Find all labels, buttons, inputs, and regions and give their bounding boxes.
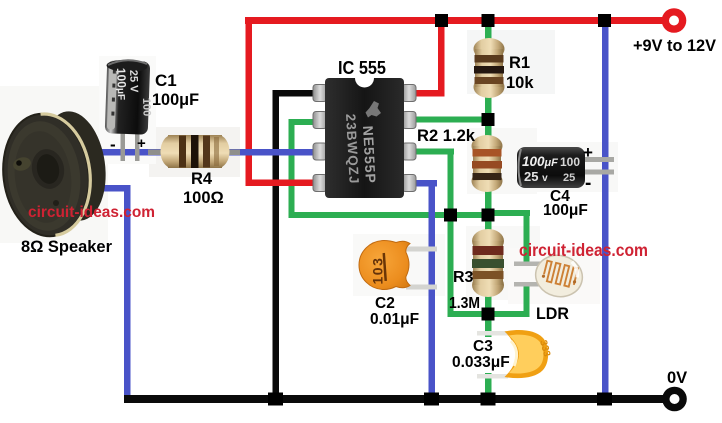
C1 photo backdrop (99, 56, 156, 164)
svg-text:R2 1.2k: R2 1.2k (417, 127, 476, 145)
wire: blue speaker to IC pin3 left (88, 149, 318, 156)
svg-text:IC 555: IC 555 (338, 58, 386, 78)
wire: blue right vertical supply to ground (602, 21, 609, 399)
wire: blue vertical pin4 right to ground rail (429, 180, 436, 399)
op-amp U1 IC 555 (313, 78, 416, 198)
R1 photo backdrop (467, 30, 555, 94)
resistor R4 (148, 135, 240, 168)
C4 photo backdrop (512, 142, 618, 192)
wire: black IC pin1 left stub (273, 90, 316, 97)
wire: +V red top rail (245, 17, 663, 24)
svg-text:C2: C2 (375, 295, 395, 312)
node on rail blue vertical (598, 14, 611, 27)
svg-text:-: - (585, 173, 591, 194)
svg-text:100μF: 100μF (114, 68, 129, 101)
pin 1 left (313, 85, 327, 102)
wire: black ground bottom rail (124, 395, 663, 403)
resistor R3 (472, 229, 504, 297)
wire: red elbow to IC pin4 left (246, 180, 319, 187)
IC body (325, 78, 404, 198)
node on rail red-to-pin1 (435, 14, 448, 27)
svg-text:NE555P: NE555P (360, 125, 379, 184)
svg-text:25 V: 25 V (127, 70, 140, 94)
wire: green horizontal to R3 bottom node (448, 311, 530, 317)
svg-text:100: 100 (140, 98, 153, 117)
svg-text:+9V to 12V: +9V to 12V (633, 37, 716, 55)
node R3 bottom junction (482, 308, 495, 321)
svg-text:circuit-ideas.com: circuit-ideas.com (28, 204, 155, 221)
svg-text:+: + (137, 135, 146, 152)
svg-text:100Ω: 100Ω (183, 189, 224, 207)
svg-text:0V: 0V (667, 369, 687, 387)
wire: blue left vertical to ground rail (124, 185, 131, 399)
R2 photo backdrop (467, 128, 537, 194)
R4 photo backdrop (149, 127, 240, 177)
node ground rail black vertical (268, 393, 283, 406)
resistor R2 (472, 135, 503, 192)
svg-text:C1: C1 (155, 71, 177, 90)
pin 5 right (402, 175, 416, 192)
pin 6 right (402, 143, 416, 160)
node R1-R2 junction (482, 113, 495, 126)
wire: blue IC pin4 right stub (416, 180, 437, 187)
svg-text:100μF: 100μF (152, 90, 199, 109)
node on rail above R1 (482, 14, 495, 27)
node ground rail green C3 (481, 393, 496, 406)
LDR photo backdrop (508, 248, 600, 304)
svg-text:R3: R3 (453, 269, 474, 286)
svg-text:8Ω Speaker: 8Ω Speaker (21, 238, 113, 256)
resistor R1 (474, 38, 505, 98)
capacitor C4 (517, 147, 614, 188)
capacitor C3 (477, 330, 552, 378)
svg-text:0.01μF: 0.01μF (370, 311, 419, 328)
node ground rail blue C2 (424, 393, 439, 406)
svg-text:LDR: LDR (536, 304, 569, 323)
svg-text:-: - (110, 135, 116, 154)
pin 3 left (313, 143, 327, 160)
svg-text:+: + (583, 143, 593, 162)
svg-text:circuit-ideas.com: circuit-ideas.com (519, 240, 648, 260)
node ground rail blue right (597, 393, 612, 406)
terminal +9V ring (662, 8, 687, 33)
wire: red elbow to IC pin1 right (415, 90, 445, 97)
svg-text:0.033μF: 0.033μF (452, 354, 510, 371)
wire: green vertical to LDR top lead (524, 210, 530, 266)
speaker LS1 (0, 107, 112, 241)
C2 photo backdrop (353, 234, 445, 296)
capacitor C2 (359, 241, 437, 290)
wire: green IC pin3 right stub (416, 149, 454, 155)
terminal 0V ring (662, 387, 687, 412)
LDR R5 (514, 250, 587, 301)
C3 photo patch (470, 337, 520, 373)
capacitor C1 (105, 59, 153, 161)
wire: blue speaker lower stub (94, 185, 130, 192)
pin 7 right (402, 112, 416, 129)
wire: red vertical from rail to pin1 right (438, 19, 445, 96)
svg-text:100μF: 100μF (543, 202, 588, 219)
wire: green horizontal under IC (289, 212, 491, 218)
wire: green column through R1 R2 R3 C3 (485, 20, 492, 402)
R3 photo backdrop (466, 226, 540, 300)
pin 2 left (313, 112, 327, 129)
svg-text:C3: C3 (473, 338, 493, 355)
svg-text:1.3M: 1.3M (449, 295, 480, 312)
wire: green IC pin2 left stub (289, 119, 315, 125)
pin 8 right (402, 85, 416, 102)
node pin3 green junction (444, 209, 457, 222)
svg-text:10k: 10k (506, 74, 534, 92)
wire: green vertical from LDR bottom lead (524, 285, 530, 316)
wire: green vertical node to lower node (448, 212, 454, 315)
wire: green IC pin2 right to R1-R2 node (416, 117, 490, 123)
wire: red vertical to pin4 left (246, 17, 253, 186)
pin 4 left (313, 175, 327, 192)
wire: black vertical pin1 left to ground rail (273, 90, 280, 399)
svg-text:100μF: 100μF (522, 154, 558, 169)
speaker photo backdrop (0, 86, 108, 243)
svg-text:25: 25 (563, 172, 575, 184)
svg-text:R1: R1 (509, 54, 530, 72)
svg-text:R4: R4 (191, 170, 213, 188)
wire: green horizontal R2 node to LDR (488, 210, 530, 216)
node R2 bottom junction (482, 209, 495, 222)
wire: green vertical pin3 right down to node (448, 149, 454, 218)
svg-text:100: 100 (560, 155, 580, 169)
wire: green vertical at left of IC (289, 119, 295, 218)
